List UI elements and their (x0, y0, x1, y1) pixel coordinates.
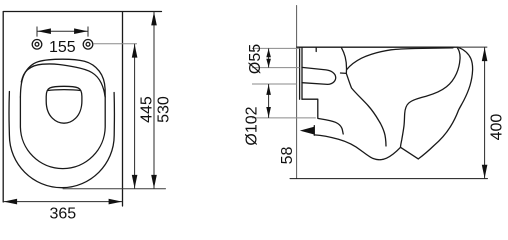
svg-text:365: 365 (49, 206, 76, 220)
svg-text:400: 400 (489, 114, 506, 141)
svg-text:155: 155 (49, 39, 76, 56)
svg-text:445: 445 (138, 96, 155, 123)
svg-text:Ø55: Ø55 (247, 44, 264, 74)
svg-text:58: 58 (279, 147, 296, 165)
svg-text:530: 530 (155, 96, 172, 123)
svg-text:Ø102: Ø102 (243, 106, 260, 145)
